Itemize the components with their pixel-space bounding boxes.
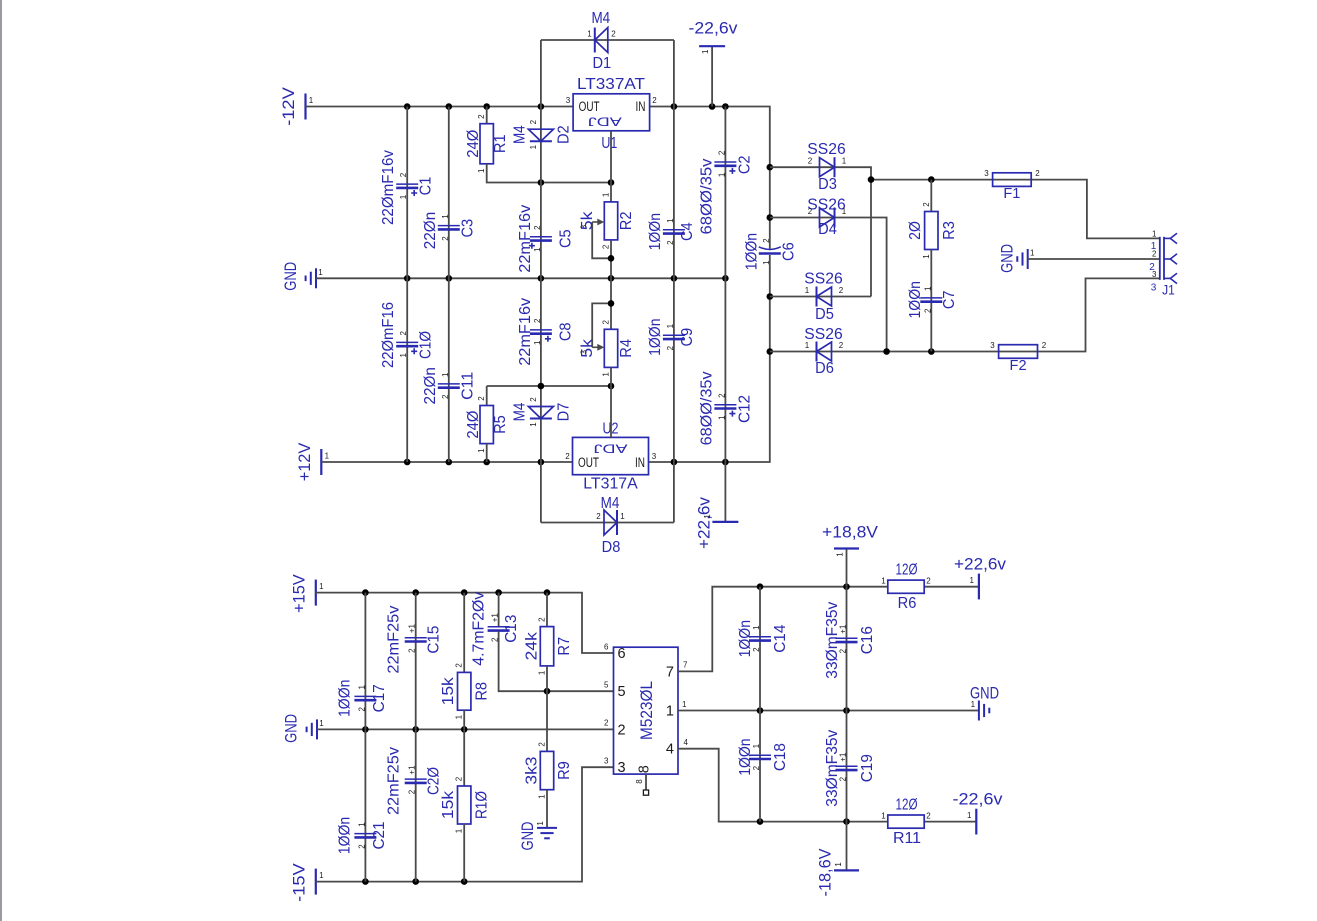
svg-text:1: 1 (666, 704, 674, 720)
wire C9 column (673, 278, 675, 462)
junction dots D6 row (883, 348, 934, 355)
svg-text:4.7mF2Øv: 4.7mF2Øv (471, 592, 488, 666)
svg-text:1: 1 (836, 552, 845, 557)
svg-text:R8: R8 (474, 682, 491, 701)
svg-text:2: 2 (455, 663, 464, 668)
resistor R11 (888, 815, 924, 828)
svg-text:F1: F1 (1003, 186, 1020, 202)
svg-text:2: 2 (762, 238, 771, 243)
svg-text:2: 2 (455, 776, 464, 781)
svg-text:2: 2 (926, 811, 931, 820)
svg-text:1: 1 (762, 260, 771, 265)
wire R4 top stem (610, 278, 612, 329)
svg-text:F2: F2 (1010, 358, 1027, 374)
svg-text:2: 2 (922, 202, 931, 207)
svg-text:2: 2 (399, 172, 408, 177)
svg-text:C2: C2 (736, 155, 753, 174)
svg-text:1ØØn: 1ØØn (336, 680, 353, 717)
diode D3 (820, 157, 835, 177)
svg-text:1: 1 (701, 49, 710, 54)
svg-text:1: 1 (666, 218, 675, 223)
capacitor C14 (749, 637, 771, 641)
svg-text:1ØØn: 1ØØn (744, 233, 761, 270)
wire R4 bottom stem (610, 367, 612, 386)
svg-text:2: 2 (357, 707, 366, 712)
wire pin1 row to GND (678, 710, 979, 712)
svg-text:2: 2 (602, 244, 611, 249)
wire C17 column (364, 593, 366, 730)
wire C4 column (673, 107, 675, 279)
svg-text:C3: C3 (459, 219, 476, 238)
svg-text:1: 1 (587, 29, 592, 38)
svg-text:IN: IN (636, 99, 646, 114)
svg-text:C4: C4 (679, 222, 696, 241)
svg-text:SS26: SS26 (804, 271, 842, 288)
svg-text:33ØmF35v: 33ØmF35v (824, 602, 841, 679)
svg-text:1: 1 (967, 811, 972, 820)
svg-text:2: 2 (477, 396, 486, 401)
svg-text:1: 1 (1152, 229, 1157, 238)
capacitor C6 (759, 247, 781, 254)
svg-text:3: 3 (566, 96, 571, 105)
svg-text:+18,8V: +18,8V (822, 524, 878, 542)
wire R2 top stem (610, 183, 612, 202)
diode D7 (528, 407, 553, 419)
svg-text:4: 4 (666, 742, 674, 758)
svg-text:12Ø: 12Ø (896, 797, 918, 814)
port -22,6v lower (975, 809, 977, 835)
svg-text:GND: GND (519, 821, 537, 850)
wire R1 bottom to ADJ row (487, 164, 611, 183)
svg-text:+22,6v: +22,6v (954, 556, 1007, 574)
wire D1 row (541, 39, 674, 41)
svg-text:C16: C16 (859, 626, 876, 654)
svg-text:+1: +1 (491, 613, 500, 623)
diode D6 (817, 342, 832, 362)
svg-text:1: 1 (318, 268, 323, 277)
svg-text:1: 1 (970, 576, 975, 585)
capacitor C21 (354, 834, 376, 838)
svg-text:2: 2 (408, 789, 417, 794)
fuse F2 (999, 345, 1038, 359)
port +15V (315, 580, 317, 606)
wire +18,8V stem (846, 549, 848, 587)
svg-text:1: 1 (319, 582, 324, 591)
wire R9 bottom stem (546, 790, 548, 828)
wire R2 bottom stem (610, 240, 612, 278)
svg-text:C6: C6 (780, 242, 797, 261)
svg-text:22mF25v: 22mF25v (385, 747, 402, 815)
svg-text:R5: R5 (492, 415, 509, 434)
svg-text:R6: R6 (898, 595, 917, 612)
svg-text:1: 1 (834, 862, 843, 867)
svg-text:2: 2 (717, 393, 726, 398)
wire U2 ADJ stem (610, 386, 612, 437)
wire +22,6v stem (724, 462, 726, 522)
wire -15V rail to pin3 (316, 767, 614, 881)
wire -12V rail (306, 106, 574, 108)
svg-text:6: 6 (618, 646, 626, 662)
op-amp U3 M5230L (614, 647, 679, 774)
svg-text:2: 2 (529, 119, 538, 124)
junction dots R11 row (757, 818, 850, 825)
svg-text:1: 1 (717, 172, 726, 177)
svg-text:24k: 24k (524, 631, 541, 660)
wire GND rail (316, 277, 725, 279)
junction dots -15V rail (362, 878, 467, 885)
wire -12V rail right to D3 column (650, 107, 770, 168)
junction dot R4 wiper (608, 300, 615, 307)
svg-text:1: 1 (602, 192, 611, 197)
svg-text:5k: 5k (579, 210, 596, 230)
wire R7 bottom to R9 top (546, 666, 548, 752)
svg-text:1ØØn: 1ØØn (647, 213, 664, 250)
svg-text:-12V: -12V (280, 87, 298, 126)
svg-text:33ØmF35v: 33ØmF35v (824, 730, 841, 807)
wire C6 column lower (769, 255, 771, 352)
wire D5 row (770, 296, 871, 298)
svg-text:22mF25v: 22mF25v (385, 606, 402, 674)
svg-text:1: 1 (805, 286, 810, 295)
svg-text:GND: GND (999, 244, 1017, 273)
svg-text:1: 1 (441, 372, 450, 377)
wire D6-F2 row to J1 pin3 (770, 278, 1160, 351)
svg-text:-15V: -15V (290, 863, 308, 902)
wire C5 column (540, 183, 542, 279)
connector J1 (1160, 233, 1177, 283)
fuse F1 (993, 173, 1032, 187)
svg-text:1: 1 (923, 286, 932, 291)
svg-text:2: 2 (408, 648, 417, 653)
svg-text:1: 1 (1030, 249, 1035, 258)
capacitor C18 (749, 755, 771, 759)
svg-text:D1: D1 (592, 55, 611, 72)
svg-text:1: 1 (881, 577, 886, 586)
wire C13 to pin5 row (499, 632, 614, 692)
svg-text:1: 1 (455, 828, 464, 833)
svg-text:1: 1 (399, 353, 408, 358)
wire C3 column (448, 107, 450, 279)
svg-text:2: 2 (596, 512, 601, 521)
capacitor C9 (663, 335, 685, 339)
svg-text:C7: C7 (941, 290, 958, 309)
resistor R9 (540, 751, 553, 789)
svg-text:1: 1 (805, 341, 810, 350)
svg-text:2: 2 (666, 345, 675, 350)
svg-text:2: 2 (611, 29, 616, 38)
svg-text:2: 2 (1042, 341, 1047, 350)
svg-text:C5: C5 (557, 229, 574, 248)
capacitor C8 (530, 330, 552, 342)
svg-text:1: 1 (477, 448, 486, 453)
svg-text:3k3: 3k3 (524, 756, 541, 784)
svg-text:1: 1 (319, 871, 324, 880)
svg-text:2: 2 (533, 318, 542, 323)
svg-text:2: 2 (538, 617, 547, 622)
svg-text:1: 1 (538, 794, 547, 799)
wire C2 column (724, 107, 726, 279)
svg-text:5: 5 (618, 684, 626, 700)
junction dots lower ADJ row (538, 383, 615, 390)
svg-text:3: 3 (1151, 283, 1157, 294)
svg-text:D2: D2 (555, 125, 572, 144)
svg-text:3: 3 (618, 760, 626, 776)
svg-text:2: 2 (923, 308, 932, 313)
capacitor C17 (354, 696, 376, 700)
svg-text:3: 3 (990, 341, 995, 350)
svg-text:2: 2 (926, 577, 931, 586)
junction dot R2 wiper (608, 255, 615, 262)
diode D8 (604, 510, 617, 535)
svg-text:1: 1 (620, 512, 625, 521)
wire R8 bottom stem (463, 710, 465, 729)
svg-text:SS26: SS26 (804, 326, 842, 343)
wire C16 column (846, 587, 848, 711)
wire C14 column (759, 587, 761, 711)
capacitor C3 (438, 226, 460, 230)
wire D8 row (541, 522, 674, 524)
svg-text:C17: C17 (371, 684, 388, 712)
svg-text:C12: C12 (736, 395, 753, 423)
wire C13 top stem (498, 593, 500, 626)
svg-text:LT337AT: LT337AT (577, 76, 645, 93)
svg-text:1ØØn: 1ØØn (647, 319, 664, 356)
svg-text:2: 2 (538, 742, 547, 747)
svg-text:OUT: OUT (578, 455, 599, 470)
svg-text:C8: C8 (557, 322, 574, 341)
capacitor C12 (714, 405, 736, 417)
svg-text:1: 1 (922, 254, 931, 259)
capacitor C19 (836, 766, 858, 770)
svg-text:M523ØL: M523ØL (637, 681, 656, 740)
svg-text:ADJ: ADJ (594, 442, 628, 454)
wire C8 column (540, 278, 542, 386)
capacitor C7 (920, 298, 942, 302)
svg-text:-22,6v: -22,6v (689, 20, 739, 38)
svg-text:2: 2 (604, 719, 609, 728)
wire C21 column (364, 729, 366, 881)
resistor R3 (925, 212, 938, 250)
svg-text:R4: R4 (618, 339, 635, 358)
svg-text:1: 1 (533, 340, 542, 345)
svg-text:1: 1 (536, 821, 545, 826)
wire R5 top stem (486, 386, 488, 406)
svg-text:J1: J1 (1162, 283, 1175, 298)
svg-text:2Ø: 2Ø (907, 221, 924, 240)
svg-text:1: 1 (357, 685, 366, 690)
svg-text:15k: 15k (440, 790, 457, 819)
wire GND row to pin2 (317, 728, 614, 730)
svg-text:1: 1 (842, 207, 847, 216)
wire C11 column (448, 278, 450, 462)
wire pin8 stem (645, 774, 647, 790)
wire -18,6V stem (846, 822, 848, 871)
potentiometer R4 (604, 329, 617, 367)
op-amp U2 LT317A regulator (573, 437, 649, 474)
svg-text:2: 2 (839, 286, 844, 295)
svg-text:1ØØn: 1ØØn (336, 817, 353, 854)
svg-text:2: 2 (808, 157, 813, 166)
op-amp U1 LT337AT regulator (573, 94, 650, 131)
wire D4 row and jog down to D6 (770, 218, 887, 352)
svg-text:C1: C1 (418, 177, 435, 196)
svg-text:22Øn: 22Øn (422, 212, 439, 249)
resistor R7 (540, 627, 553, 666)
resistor R6 (888, 580, 924, 593)
svg-text:R2: R2 (618, 211, 635, 230)
svg-text:1: 1 (529, 422, 538, 427)
wire C20 column (415, 729, 417, 881)
svg-text:2: 2 (357, 844, 366, 849)
svg-text:C2Ø: C2Ø (425, 767, 442, 795)
svg-text:D8: D8 (602, 539, 621, 556)
svg-text:R11: R11 (893, 830, 921, 847)
svg-text:C19: C19 (859, 754, 876, 782)
svg-text:5: 5 (604, 681, 609, 690)
svg-text:1: 1 (441, 214, 450, 219)
wire D3 row and jog down to D5 (770, 167, 871, 296)
svg-text:C21: C21 (371, 821, 388, 849)
wire C10 column (406, 278, 408, 462)
wire D2-C5 column upper (540, 107, 542, 183)
svg-text:+1: +1 (408, 765, 417, 775)
svg-text:22Øn: 22Øn (422, 367, 439, 404)
port GND upper-left (306, 268, 316, 288)
diode D2 (528, 129, 553, 141)
svg-text:-22,6v: -22,6v (953, 791, 1004, 809)
capacitor C16 (836, 638, 858, 642)
wire C19 column (846, 711, 848, 822)
svg-text:1: 1 (357, 822, 366, 827)
port GND near J1 (1017, 249, 1027, 269)
svg-text:22ØmF16v: 22ØmF16v (380, 150, 397, 225)
svg-text:2: 2 (602, 320, 611, 325)
svg-text:+12V: +12V (296, 443, 314, 482)
wire R10 bottom stem (463, 824, 465, 882)
svg-text:C15: C15 (425, 625, 442, 653)
port GND lower-left (307, 719, 317, 739)
svg-text:GND: GND (283, 714, 301, 743)
junction dots R6 row (757, 583, 850, 590)
wire C6 column upper (769, 167, 771, 248)
svg-text:D6: D6 (815, 360, 834, 377)
svg-text:-18,6V: -18,6V (817, 849, 835, 897)
ground under R9 (537, 828, 557, 838)
svg-text:+22,6v: +22,6v (696, 496, 714, 549)
svg-text:1: 1 (842, 157, 847, 166)
wire R3 top stem (930, 180, 932, 212)
svg-text:1ØØn: 1ØØn (907, 281, 924, 318)
capacitor C20 (405, 779, 427, 783)
svg-text:2: 2 (652, 96, 657, 105)
svg-text:2: 2 (399, 331, 408, 336)
wire GND to J1 pin2 (1028, 258, 1160, 260)
svg-text:1: 1 (319, 719, 324, 728)
wire D1 left vertical (540, 40, 542, 107)
resistor R1 (480, 124, 493, 164)
svg-text:7: 7 (683, 661, 688, 670)
svg-text:R3: R3 (941, 221, 958, 240)
svg-text:GND: GND (970, 685, 999, 703)
wire lower ADJ row (487, 385, 611, 387)
port -15V (315, 869, 317, 895)
capacitor C4 (663, 230, 685, 234)
wire C15 column (415, 593, 417, 730)
left window edge (0, 0, 2, 921)
svg-text:2: 2 (808, 207, 813, 216)
svg-text:C11: C11 (459, 372, 476, 400)
svg-text:M4: M4 (591, 10, 610, 27)
svg-text:1: 1 (717, 415, 726, 420)
svg-text:1: 1 (455, 714, 464, 719)
svg-text:2: 2 (565, 452, 570, 461)
svg-text:4: 4 (684, 738, 689, 747)
junction dots F1 row (868, 176, 935, 183)
wire D8 right vertical (673, 462, 675, 523)
wire D8 left vertical (540, 462, 542, 523)
capacitor C15 (405, 638, 427, 642)
wire F1 row to J1 pin1 (871, 180, 1160, 239)
wire C12 column (724, 278, 726, 462)
svg-text:D3: D3 (818, 176, 837, 193)
potentiometer R2 (604, 202, 617, 240)
wire +12V rail (321, 461, 572, 463)
wire R5 bottom stem (486, 444, 488, 462)
svg-text:2: 2 (839, 341, 844, 350)
svg-text:C1Ø: C1Ø (418, 331, 435, 359)
port +12V (320, 449, 322, 475)
junction dots GND rail (404, 275, 729, 282)
wire R8 top stem (463, 593, 465, 673)
wire -22,6v stem (711, 46, 713, 106)
svg-text:1: 1 (325, 452, 330, 461)
svg-text:3: 3 (652, 452, 657, 461)
port +22,6v lower (978, 574, 980, 600)
capacitor C5 (529, 237, 552, 249)
svg-text:1: 1 (666, 323, 675, 328)
svg-text:1: 1 (1151, 241, 1157, 252)
junction dots C6 column (767, 164, 774, 355)
svg-text:IN: IN (635, 455, 645, 470)
svg-text:R7: R7 (556, 637, 573, 656)
svg-text:8: 8 (637, 765, 653, 773)
wire U1 ADJ stem (610, 131, 612, 183)
svg-text:7: 7 (666, 664, 674, 680)
svg-text:U1: U1 (601, 135, 617, 152)
junction dots upper ADJ row (538, 179, 615, 186)
wire R7 top stem (546, 593, 548, 627)
svg-text:D5: D5 (815, 306, 834, 323)
svg-text:ADJ: ADJ (588, 115, 622, 127)
junction dots pin1 row (757, 707, 850, 714)
wire R10 top stem (463, 729, 465, 786)
junction dot pin5 row (544, 688, 551, 695)
wire +12V rail right to D6 column (649, 352, 770, 463)
svg-text:1: 1 (533, 247, 542, 252)
svg-text:15k: 15k (440, 676, 457, 705)
svg-text:2: 2 (1149, 262, 1155, 273)
wire D7 column (540, 386, 542, 462)
svg-text:1: 1 (881, 811, 886, 820)
svg-text:22mF16v: 22mF16v (517, 205, 534, 273)
svg-text:3: 3 (604, 757, 609, 766)
svg-text:M4: M4 (511, 403, 528, 422)
svg-text:1: 1 (399, 194, 408, 199)
svg-text:GND: GND (282, 262, 300, 291)
svg-text:SS26: SS26 (807, 196, 845, 213)
svg-text:8: 8 (635, 779, 644, 784)
svg-text:R9: R9 (556, 761, 573, 780)
